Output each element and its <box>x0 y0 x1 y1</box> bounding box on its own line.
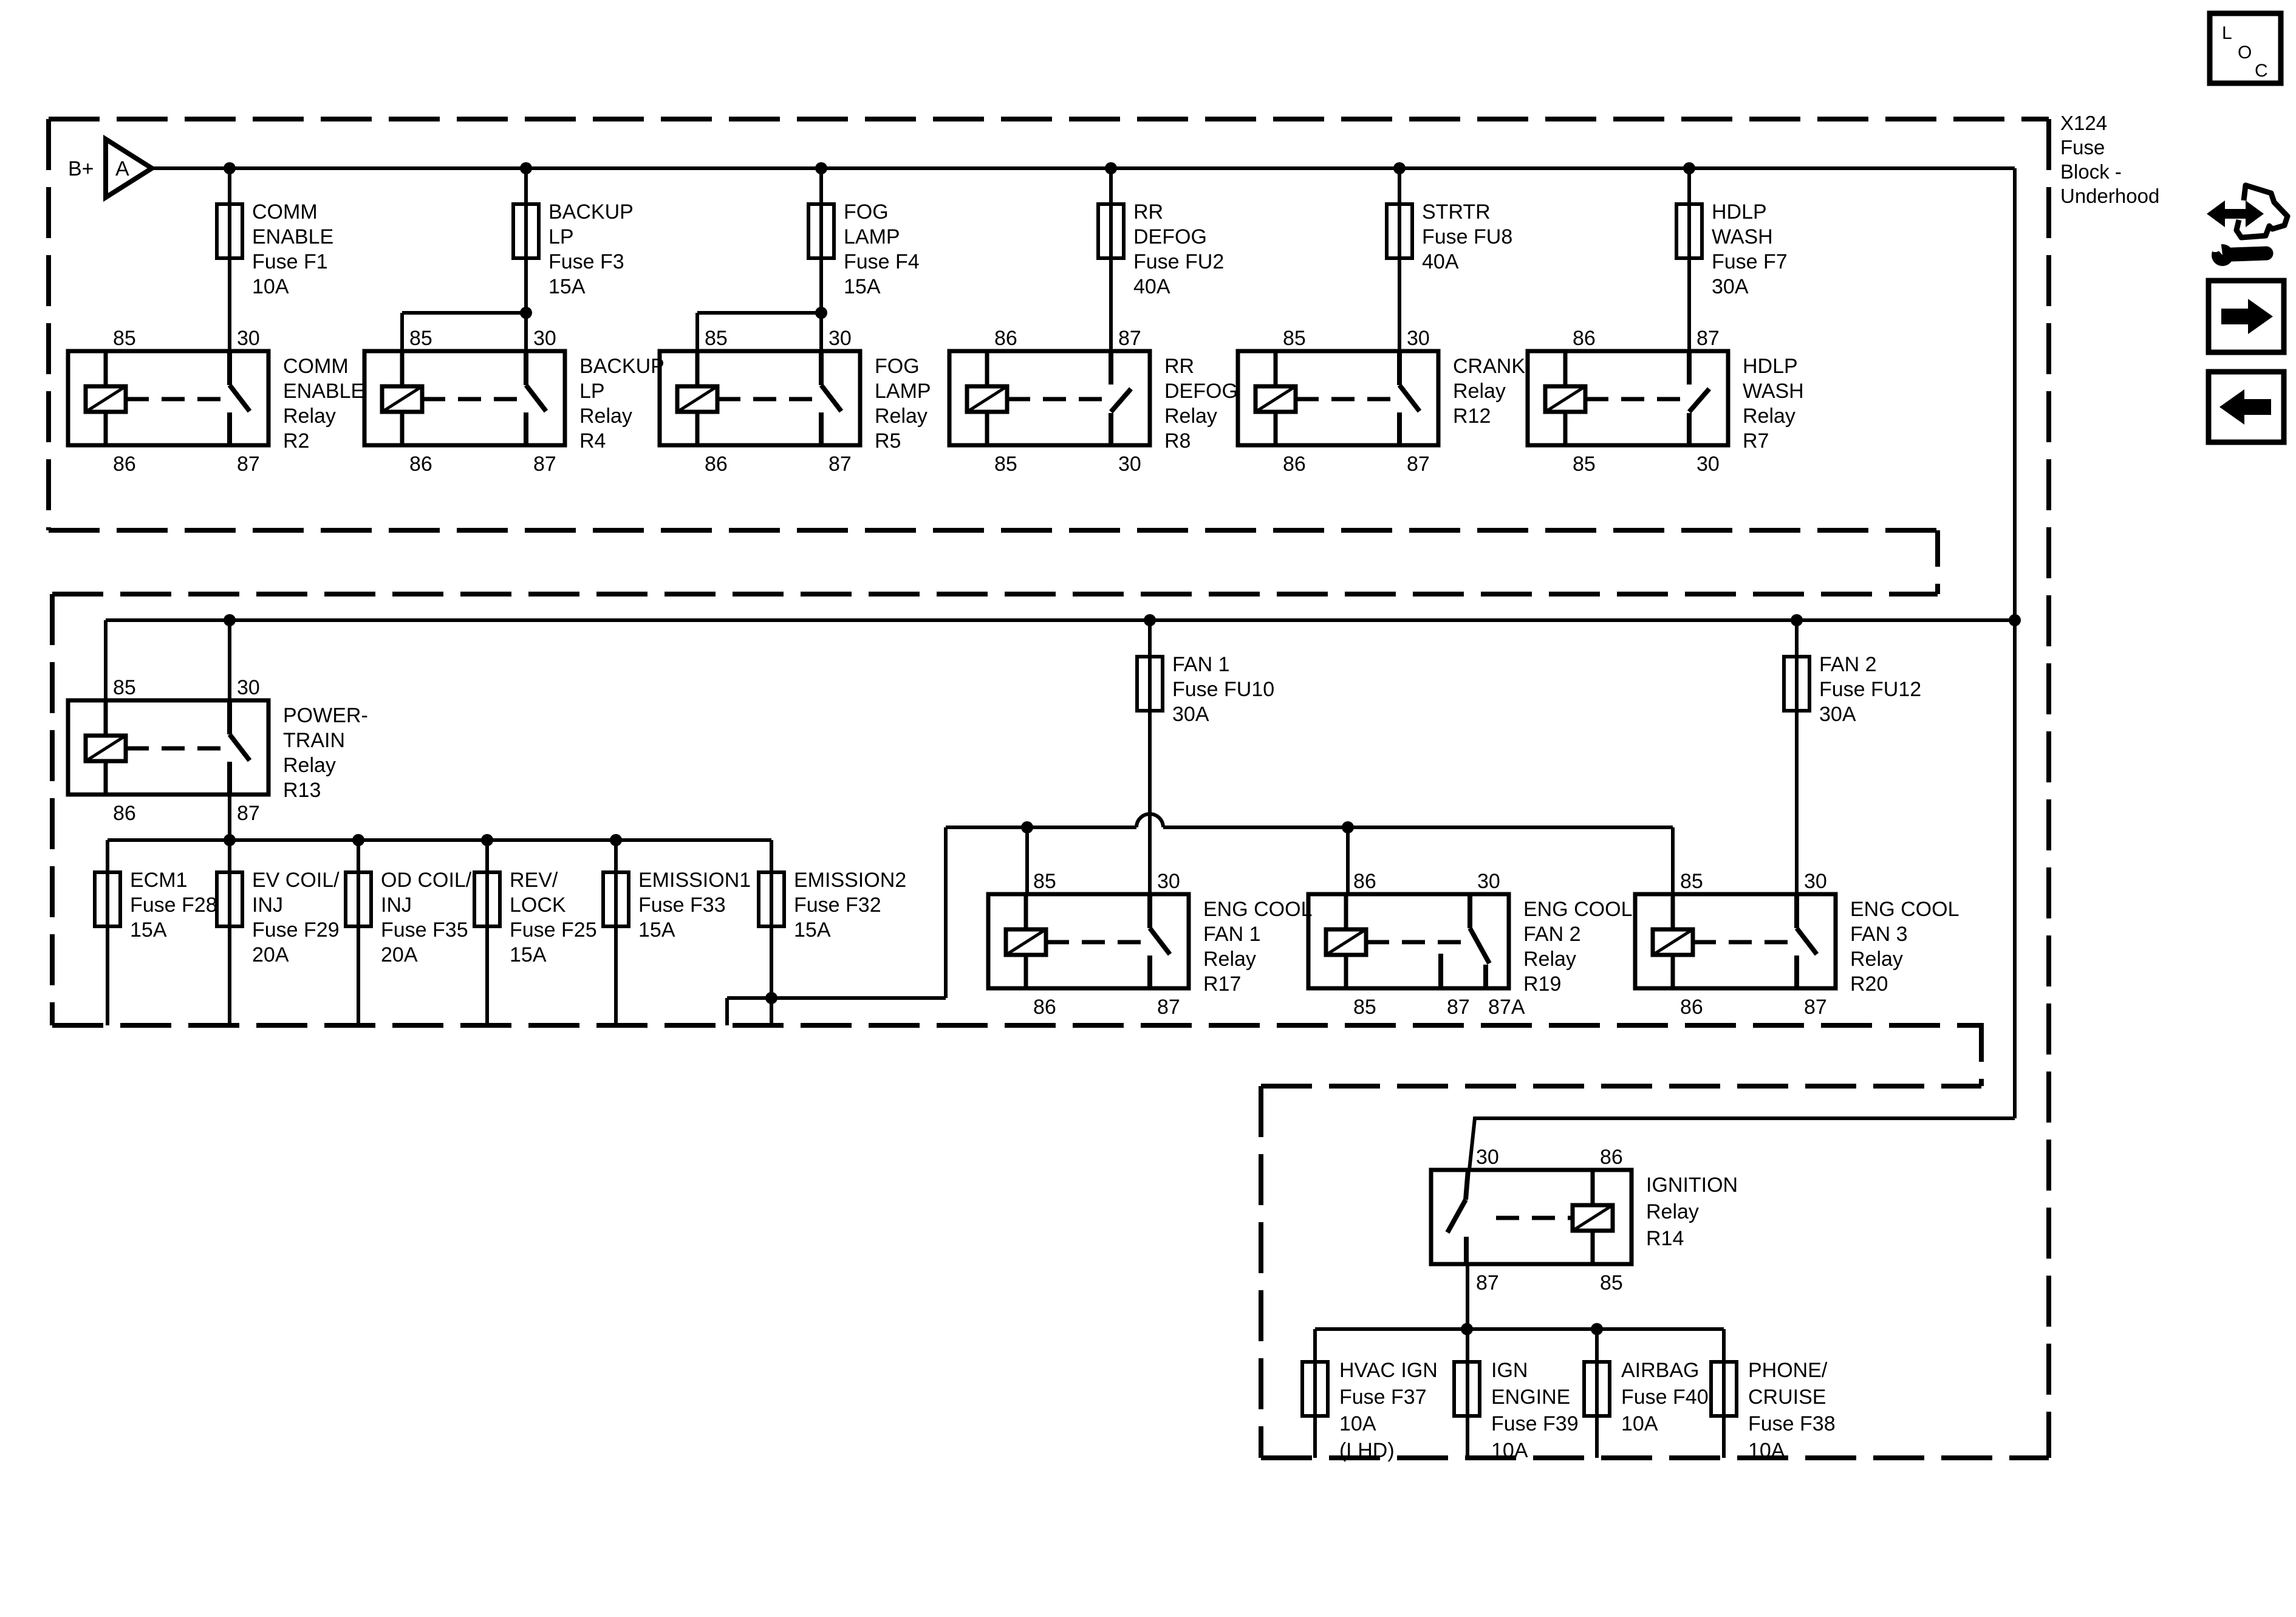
wire EMISSION1 fuse column <box>614 840 618 1025</box>
relay R8 coil <box>967 386 1007 412</box>
relay R17 actuation dashed link <box>1046 940 1143 945</box>
relay R12 actuation dashed link <box>1296 397 1392 402</box>
relay R2 actuation dashed link <box>126 397 222 402</box>
relay R7 actuation dashed link <box>1585 397 1682 402</box>
dashed border: jog box2-box3 <box>1979 1025 1984 1086</box>
relay R5 actuation dashed link <box>717 397 814 402</box>
relay R8 switch <box>1109 351 1113 385</box>
wire REV/LOCK fuse column <box>485 840 489 1025</box>
wire L-link down <box>944 827 948 998</box>
wire FAN2 column (bus2 to R20 pin30) <box>1795 620 1799 894</box>
wire bus1 to fuse F1 column <box>228 168 231 351</box>
junction bus1 x=378 <box>224 162 236 174</box>
junction bus2 FAN1 <box>1144 614 1156 626</box>
junction R4 branch <box>520 307 532 319</box>
icon: vehicle service (car outline) <box>2236 185 2287 238</box>
relay R5 switch <box>819 351 824 385</box>
fuse F39 10A <box>1454 1362 1480 1416</box>
dashed border: box1 left <box>46 119 51 530</box>
fuse FU12 30A <box>1784 657 1809 711</box>
relay R7 coil <box>1545 386 1585 412</box>
svg-text:A: A <box>115 157 129 180</box>
relay R12 box <box>1238 351 1438 445</box>
relay R19 box <box>1308 894 1509 988</box>
relay R5 box <box>660 351 860 445</box>
relay R17 coil pin wires <box>1024 894 1028 988</box>
relay R7 box <box>1528 351 1728 445</box>
relay R19 coil pin wires <box>1344 894 1348 988</box>
fuse FU10 30A <box>1137 657 1163 711</box>
wire FAN1 column (bus2 to R17 pin30) <box>1148 620 1152 894</box>
dashed border: box3 left <box>1259 1086 1263 1458</box>
junction bus4 pin87 <box>1461 1323 1473 1335</box>
junction bus3 x=1014 <box>610 834 622 846</box>
icon: back arrow box <box>2209 372 2284 442</box>
relay R2 coil pin wires <box>104 351 108 445</box>
relay R13 coil pin wires <box>104 700 108 795</box>
wire ENG cool relay feed (right part) <box>1163 826 1673 829</box>
relay R14 box <box>1431 1170 1631 1264</box>
dashed border: box2 bottom <box>52 1023 1984 1028</box>
wire bus1 to fuse F3 column <box>524 168 528 351</box>
power feed triangle A <box>106 139 152 197</box>
icon: double arrow <box>2207 200 2264 227</box>
relay R13 actuation dashed link <box>126 747 222 751</box>
fuse F35 20A <box>346 872 371 926</box>
relay R20 coil pin wires <box>1671 894 1675 988</box>
wire feed drop to R17 pin85 <box>1025 827 1029 894</box>
fuse F7 30A <box>1676 204 1702 258</box>
relay R2 coil <box>86 386 126 412</box>
relay R12 coil <box>1256 386 1296 412</box>
junction bus3 x=802 <box>481 834 493 846</box>
relay R4 coil <box>382 386 422 412</box>
wire OD COIL fuse column <box>357 840 360 1025</box>
fuse F25 15A <box>474 872 500 926</box>
relay R19 switch <box>1467 894 1472 928</box>
wire bus1 to fuse F4 column <box>819 168 823 351</box>
wire branch drop R4 pin85 <box>400 313 404 351</box>
fuse F3 15A <box>513 204 539 258</box>
relay R8 coil pin wires <box>985 351 989 445</box>
wire bus1 (B+ feed, top) <box>152 166 2015 170</box>
relay R14 switch <box>1466 1170 1468 1200</box>
wire bus3 (R13 load feed) <box>108 838 771 842</box>
junction bus2 FAN2 <box>1791 614 1803 626</box>
wire feed drop to R19 pin86 <box>1346 827 1350 894</box>
junction bus1 x=1352 <box>815 162 827 174</box>
wire bus1 to fuse FU2 column <box>1109 168 1113 351</box>
fuse FU8 40A <box>1387 204 1412 258</box>
relay R17 switch <box>1147 894 1152 928</box>
fuse F1 10A <box>217 204 242 258</box>
wire EMISSION2 fuse column <box>770 840 773 1025</box>
relay R4 switch <box>524 351 528 385</box>
relay R8 box <box>949 351 1150 445</box>
junction bus1 x=866 <box>520 162 532 174</box>
fuse F29 20A <box>217 872 242 926</box>
junction L-link EMISSION2 <box>765 992 777 1004</box>
wire branch to R4 pin85 <box>402 311 526 315</box>
wire feed to ignition relay R14 pin30 <box>1469 1118 2015 1170</box>
wire branch drop R5 pin85 <box>695 313 699 351</box>
fuse F4 15A <box>808 204 834 258</box>
relay R20 coil <box>1653 929 1693 955</box>
relay R12 coil pin wires <box>1274 351 1278 445</box>
junction bus3 x=378 <box>224 834 236 846</box>
relay R2 switch <box>227 351 232 385</box>
fuse F40 10A <box>1584 1362 1610 1416</box>
relay R4 actuation dashed link <box>422 397 519 402</box>
relay R14 coil <box>1573 1205 1613 1231</box>
wire R13 pin87 to bus3 <box>228 796 231 840</box>
dashed border: right side (shared) <box>2046 119 2051 1458</box>
wire EV COIL fuse column <box>228 840 231 1025</box>
fuse F28 15A <box>95 872 120 926</box>
wire bus1 to fuse F7 column <box>1687 168 1691 351</box>
fuse FU2 40A <box>1098 204 1124 258</box>
wire L-link drop to border <box>725 998 729 1025</box>
wire hop over FAN1 column <box>1136 814 1163 827</box>
junction bus2 right <box>2009 614 2021 626</box>
icon: forward arrow box <box>2209 281 2284 352</box>
relay R13 coil <box>86 736 126 761</box>
junction R5 branch <box>815 307 827 319</box>
icon: wrench <box>2232 253 2266 255</box>
wire branch to R5 pin85 <box>697 311 821 315</box>
junction bus1 x=1829 <box>1105 162 1117 174</box>
dashed border: fuse block box1 top <box>49 117 2049 121</box>
relay R4 coil pin wires <box>400 351 405 445</box>
relay R20 switch <box>1794 894 1799 928</box>
relay R13 box <box>68 700 268 795</box>
junction bus1 x=2304 <box>1393 162 1406 174</box>
wire bus2 to R13 pin30 <box>228 620 231 700</box>
svg-text:B+: B+ <box>68 157 94 180</box>
LOC reference box <box>2210 13 2281 83</box>
wire feed drop to R20 pin85 <box>1671 827 1675 894</box>
relay R19 actuation dashed link <box>1366 940 1463 945</box>
wire bus1 to fuse FU8 column <box>1398 168 1401 351</box>
relay R20 box <box>1635 894 1836 988</box>
wire HVAC IGN fuse column <box>1313 1329 1317 1458</box>
fuse F32 15A <box>759 872 784 926</box>
dashed border: box3 bottom <box>1261 1455 2049 1460</box>
dashed border: jog box1-box2 <box>1935 530 1940 594</box>
wire right vertical drop <box>2013 168 2017 1118</box>
relay R12 switch <box>1397 351 1402 385</box>
junction bus4 AIRBAG <box>1591 1323 1603 1335</box>
relay R14 actuation dashed link <box>1496 1216 1573 1220</box>
relay R2 box <box>68 351 268 445</box>
relay R7 switch <box>1687 351 1692 385</box>
relay R4 box <box>364 351 565 445</box>
relay R19 coil <box>1326 929 1366 955</box>
wire R14 pin87 / IGN ENGINE column <box>1466 1266 1469 1458</box>
relay R7 coil pin wires <box>1563 351 1568 445</box>
relay R17 coil <box>1006 929 1046 955</box>
dashed border: box3 top <box>1261 1084 1981 1089</box>
fuse F33 15A <box>603 872 629 926</box>
dashed border: box2 left <box>50 594 55 1025</box>
fuse F38 10A <box>1711 1362 1737 1416</box>
junction feed R17 pin85 <box>1021 821 1033 833</box>
wire ECM1 fuse column <box>106 840 109 1025</box>
relay R8 actuation dashed link <box>1007 397 1104 402</box>
junction bus2 R13 pin30 <box>224 614 236 626</box>
junction bus3 x=590 <box>352 834 364 846</box>
dashed border: box2 top <box>52 592 1938 597</box>
relay R20 actuation dashed link <box>1693 940 1789 945</box>
wire bus2 (middle feed) <box>106 618 2015 622</box>
wire bus2 to R13 pin85 <box>104 620 108 700</box>
fuse F37 10A <box>1302 1362 1328 1416</box>
junction bus1 x=2781 <box>1683 162 1695 174</box>
relay R5 coil pin wires <box>695 351 700 445</box>
relay R17 box <box>988 894 1189 988</box>
wire AIRBAG fuse column <box>1595 1329 1599 1458</box>
wire bus4 (ignition feed) <box>1315 1327 1724 1331</box>
relay R14 coil pin wires <box>1591 1170 1595 1264</box>
relay R5 coil <box>677 386 717 412</box>
wire ENG cool relay feed (left part) <box>946 826 1136 829</box>
wire L-link horizontal <box>727 996 946 1000</box>
junction feed R19 pin86 <box>1342 821 1354 833</box>
dashed border: box1 bottom <box>49 528 1938 533</box>
relay R13 switch <box>227 700 232 734</box>
wire PHONE/CRUISE fuse column <box>1722 1329 1726 1458</box>
